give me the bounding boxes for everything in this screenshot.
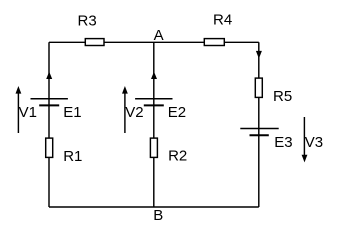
svg-text:R1: R1 <box>63 148 82 165</box>
voltage arrow V3 (down) <box>302 117 308 162</box>
svg-text:V2: V2 <box>125 104 143 121</box>
svg-text:V3: V3 <box>305 134 323 151</box>
svg-text:E2: E2 <box>168 104 186 121</box>
svg-text:R4: R4 <box>213 11 232 28</box>
current arrow up on left branch <box>46 72 52 79</box>
wire right branch <box>258 42 260 207</box>
resistor R2 <box>150 138 157 157</box>
battery E1 <box>31 99 68 106</box>
svg-text:R2: R2 <box>168 148 187 165</box>
resistor R5 <box>255 78 262 97</box>
voltage arrow V1 (up) <box>16 86 22 133</box>
svg-text:A: A <box>154 27 164 44</box>
battery E2 <box>135 99 172 106</box>
resistor R4 <box>204 39 224 46</box>
svg-text:V1: V1 <box>19 104 37 121</box>
svg-text:R5: R5 <box>273 88 292 105</box>
svg-text:R3: R3 <box>78 13 97 30</box>
battery E3 <box>240 129 278 136</box>
wire top (node A rail) <box>49 41 259 43</box>
svg-text:E1: E1 <box>63 104 81 121</box>
resistor R3 <box>85 39 104 46</box>
current arrow down on right branch <box>256 51 262 59</box>
wire middle branch <box>153 42 155 207</box>
voltage arrow V2 (up) <box>122 86 128 133</box>
resistor R1 <box>46 138 53 157</box>
svg-text:B: B <box>153 207 163 224</box>
current arrow up on middle branch <box>151 72 157 79</box>
wire left branch <box>48 42 50 207</box>
svg-text:E3: E3 <box>274 134 292 151</box>
wire bottom (node B rail) <box>49 206 259 208</box>
